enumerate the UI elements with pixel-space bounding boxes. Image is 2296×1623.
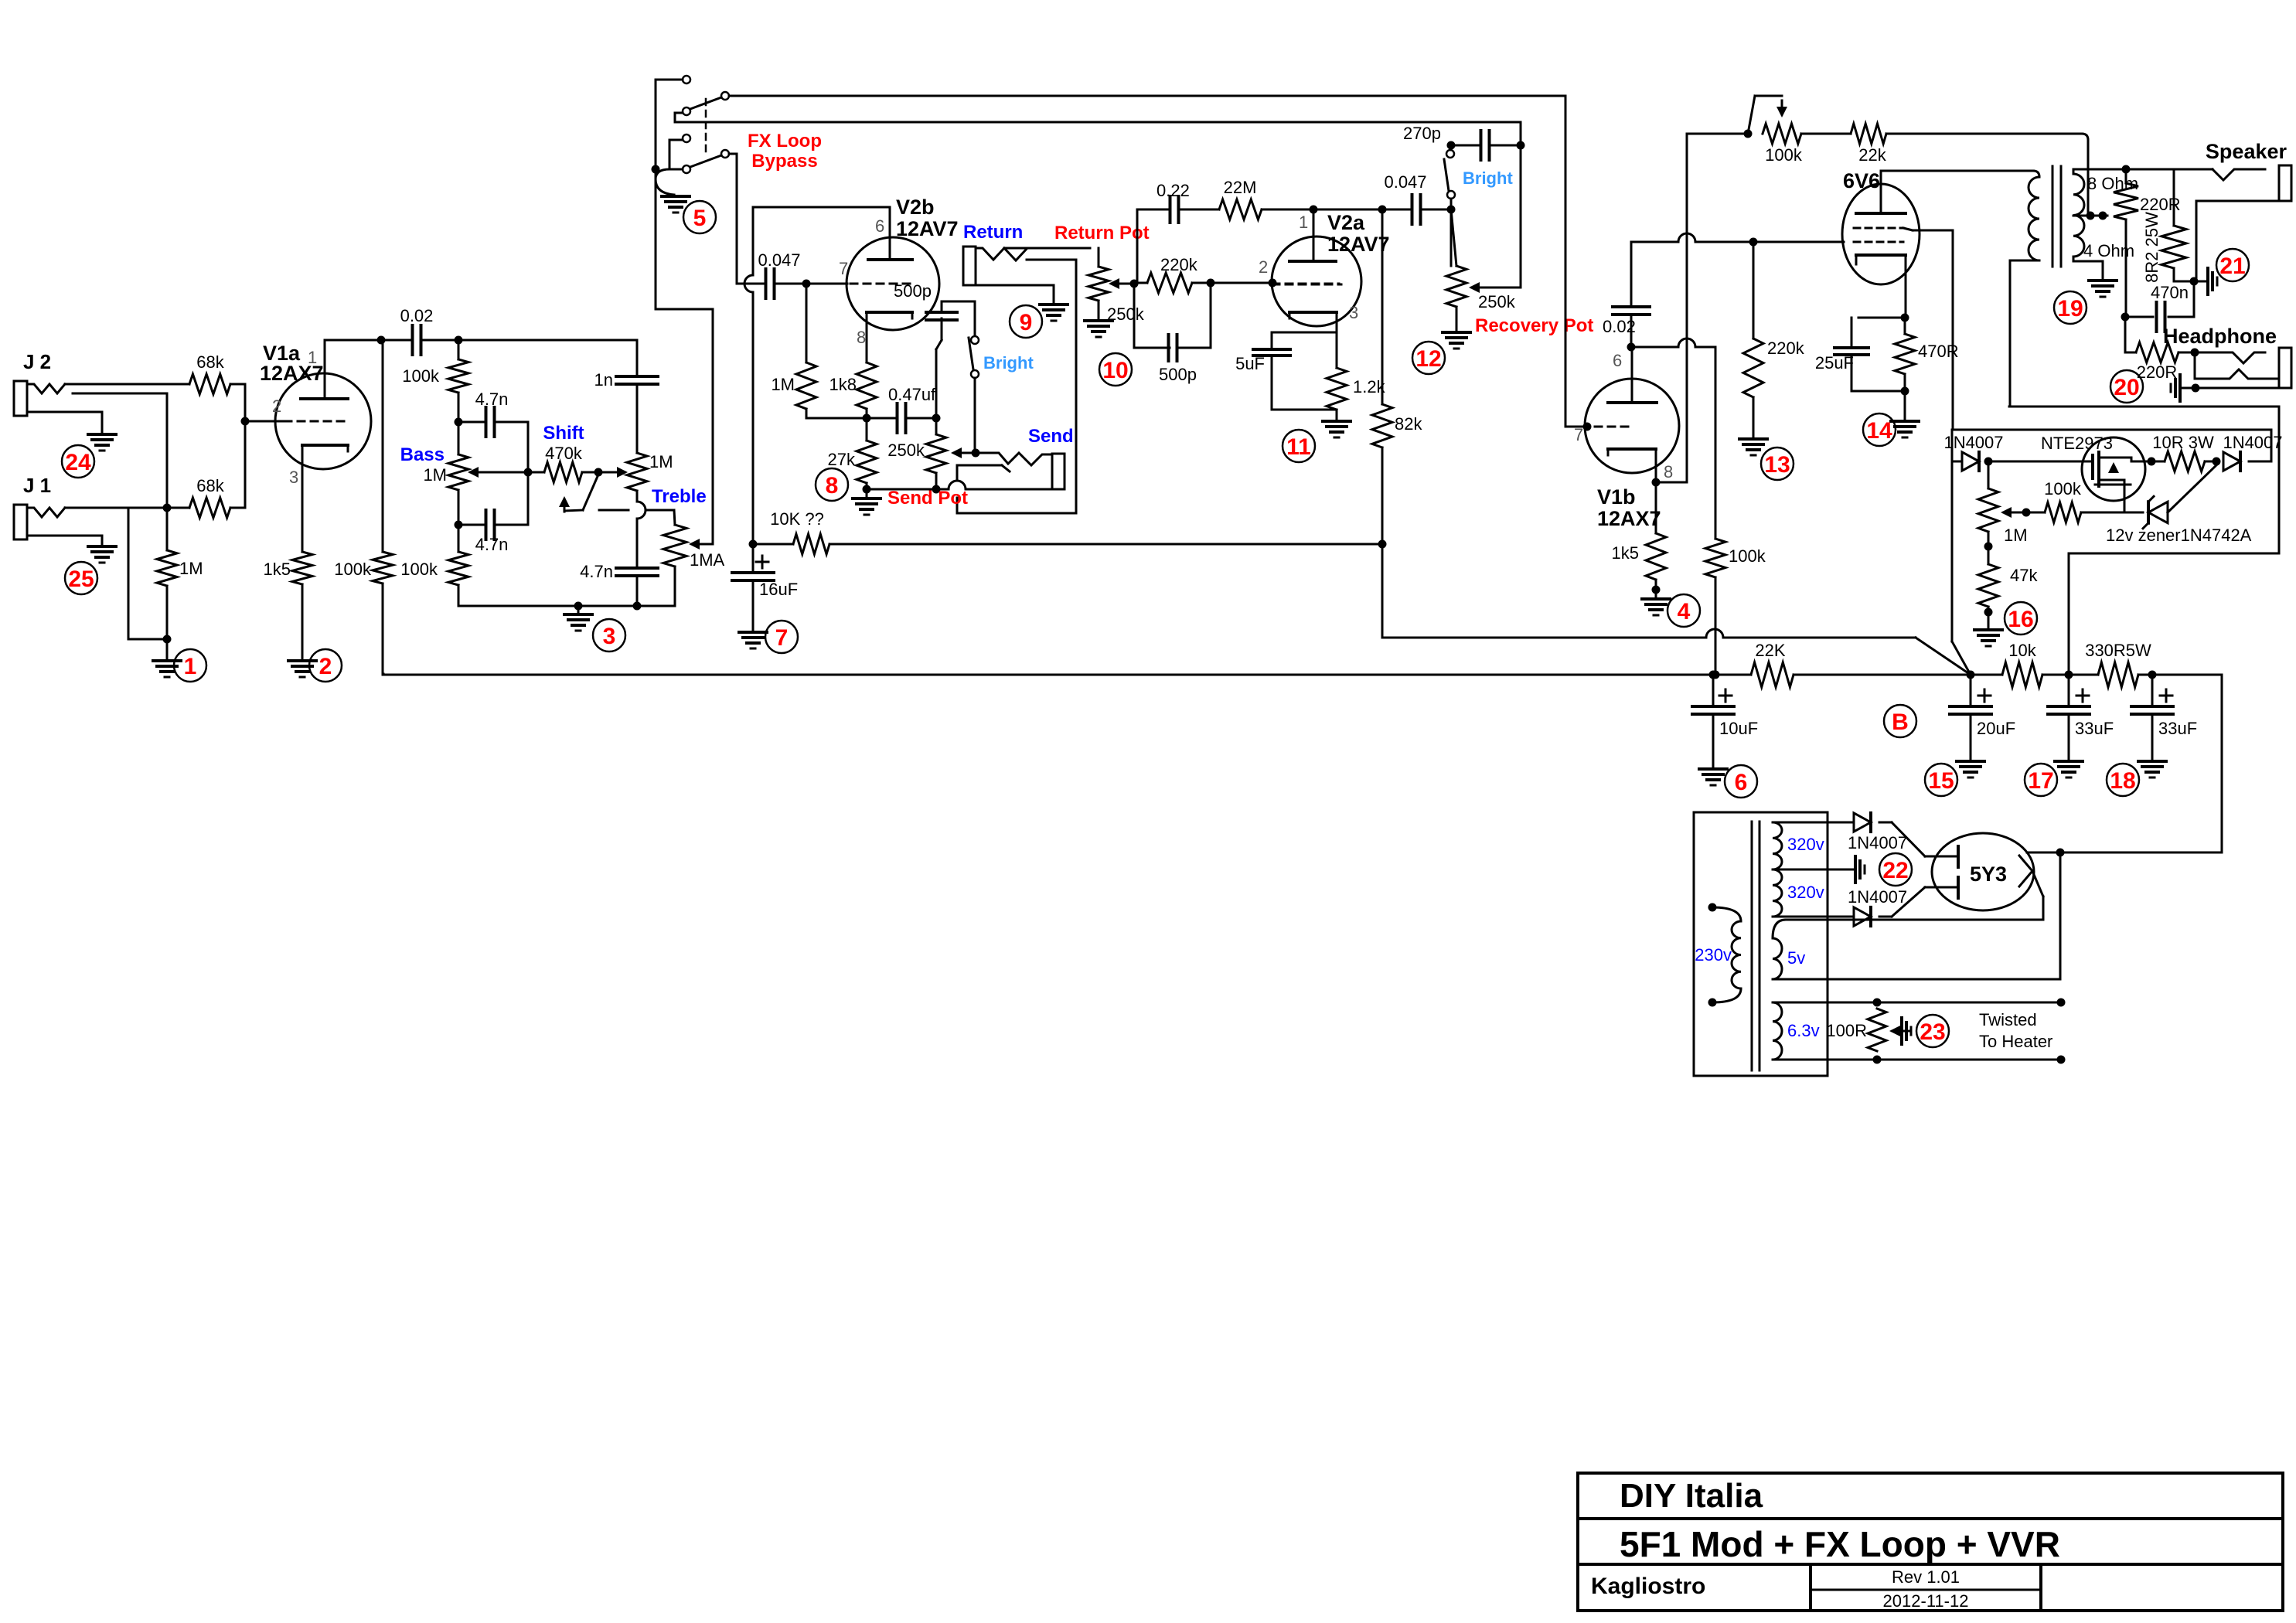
svg-text:7: 7 — [775, 625, 789, 651]
svg-text:Return Pot: Return Pot — [1054, 223, 1150, 243]
svg-text:470R: 470R — [1918, 342, 1959, 361]
svg-text:0.047: 0.047 — [758, 250, 800, 270]
svg-text:16: 16 — [2008, 607, 2033, 632]
svg-text:12: 12 — [1415, 346, 1441, 372]
svg-text:68k: 68k — [196, 352, 224, 372]
svg-text:V1b: V1b — [1597, 485, 1636, 509]
svg-text:10k: 10k — [2008, 641, 2036, 660]
svg-text:2: 2 — [272, 396, 281, 416]
svg-text:1M: 1M — [179, 559, 203, 578]
svg-text:23: 23 — [1920, 1019, 1945, 1045]
svg-text:320v: 320v — [1787, 835, 1824, 854]
svg-text:21: 21 — [2219, 253, 2245, 279]
svg-text:330R5W: 330R5W — [2085, 641, 2151, 660]
svg-text:68k: 68k — [196, 476, 224, 495]
svg-text:J 2: J 2 — [23, 350, 51, 373]
svg-text:J 1: J 1 — [23, 474, 51, 497]
svg-text:3: 3 — [289, 468, 298, 487]
svg-text:10uF: 10uF — [1719, 719, 1758, 738]
svg-text:1k5: 1k5 — [1612, 543, 1639, 563]
svg-text:1N4007: 1N4007 — [1848, 833, 1907, 852]
svg-text:470n: 470n — [2151, 283, 2189, 302]
svg-text:0.02: 0.02 — [400, 306, 434, 325]
svg-text:5F1 Mod + FX Loop + VVR: 5F1 Mod + FX Loop + VVR — [1620, 1524, 2060, 1564]
svg-text:100k: 100k — [402, 366, 440, 386]
svg-text:230v: 230v — [1695, 945, 1732, 965]
svg-text:250k: 250k — [887, 441, 925, 460]
svg-text:Twisted: Twisted — [1979, 1010, 2037, 1029]
svg-text:33uF: 33uF — [2158, 719, 2197, 738]
svg-text:2: 2 — [1259, 257, 1268, 277]
svg-text:17: 17 — [2028, 768, 2053, 794]
svg-text:4.7n: 4.7n — [580, 562, 613, 581]
svg-text:25uF: 25uF — [1815, 353, 1854, 373]
svg-text:1N4007: 1N4007 — [1848, 887, 1907, 907]
svg-text:10R 3W: 10R 3W — [2152, 433, 2214, 452]
svg-text:10K ??: 10K ?? — [770, 509, 824, 529]
svg-text:0.47uf: 0.47uf — [888, 385, 936, 404]
svg-text:22M: 22M — [1224, 178, 1257, 197]
svg-text:470k: 470k — [545, 444, 583, 463]
svg-text:15: 15 — [1928, 768, 1954, 794]
svg-text:8: 8 — [857, 328, 866, 347]
svg-text:6: 6 — [1735, 770, 1748, 795]
svg-text:1M: 1M — [423, 465, 447, 485]
svg-text:47k: 47k — [2010, 566, 2038, 585]
svg-text:13: 13 — [1764, 452, 1790, 478]
svg-text:19: 19 — [2057, 296, 2083, 322]
svg-text:12v zener1N4742A: 12v zener1N4742A — [2106, 526, 2252, 545]
svg-text:Return: Return — [963, 222, 1023, 243]
svg-text:8: 8 — [826, 473, 839, 498]
svg-text:B: B — [1892, 709, 1909, 735]
svg-text:Headphone: Headphone — [2163, 325, 2277, 348]
svg-text:1.2k: 1.2k — [1353, 377, 1386, 396]
svg-text:Bass: Bass — [400, 444, 445, 465]
svg-text:33uF: 33uF — [2075, 719, 2114, 738]
svg-text:27k: 27k — [828, 450, 856, 469]
svg-text:1N4007: 1N4007 — [1943, 433, 2003, 452]
svg-text:270p: 270p — [1403, 124, 1441, 143]
svg-text:Bypass: Bypass — [751, 151, 817, 172]
svg-text:7: 7 — [1574, 425, 1583, 444]
svg-text:5v: 5v — [1787, 948, 1805, 968]
svg-text:Treble: Treble — [652, 486, 707, 507]
svg-text:16uF: 16uF — [759, 580, 798, 599]
svg-text:5uF: 5uF — [1235, 354, 1265, 373]
svg-text:9: 9 — [1020, 310, 1033, 335]
svg-text:500p: 500p — [894, 281, 932, 301]
svg-text:6: 6 — [1613, 351, 1622, 370]
svg-text:1M: 1M — [771, 375, 795, 394]
svg-text:25: 25 — [68, 567, 94, 592]
svg-text:100k: 100k — [1765, 145, 1803, 165]
svg-text:18: 18 — [2110, 768, 2135, 794]
svg-text:100k: 100k — [400, 560, 438, 579]
svg-text:22: 22 — [1882, 858, 1908, 883]
svg-text:Send: Send — [1028, 426, 1074, 447]
svg-text:1: 1 — [1299, 213, 1308, 232]
svg-text:14: 14 — [1866, 418, 1892, 444]
svg-text:220k: 220k — [1767, 339, 1805, 358]
svg-text:100k: 100k — [334, 560, 372, 579]
svg-text:6: 6 — [875, 216, 884, 236]
svg-text:100k: 100k — [2044, 479, 2082, 498]
svg-text:22k: 22k — [1858, 145, 1886, 165]
svg-text:6.3v: 6.3v — [1787, 1021, 1820, 1040]
svg-text:Shift: Shift — [543, 423, 584, 444]
svg-text:Rev 1.01: Rev 1.01 — [1892, 1567, 1960, 1587]
svg-text:3: 3 — [603, 624, 616, 649]
svg-text:10: 10 — [1102, 358, 1128, 383]
svg-text:220R: 220R — [2137, 362, 2178, 382]
svg-text:12AV7: 12AV7 — [1327, 233, 1390, 256]
svg-text:250k: 250k — [1478, 292, 1516, 311]
svg-text:1MA: 1MA — [690, 550, 725, 570]
svg-text:20: 20 — [2114, 375, 2139, 400]
svg-text:To Heater: To Heater — [1979, 1032, 2052, 1051]
svg-text:1N4007: 1N4007 — [2223, 433, 2282, 452]
svg-text:12AV7: 12AV7 — [896, 217, 959, 240]
svg-text:82k: 82k — [1395, 414, 1422, 434]
svg-text:7: 7 — [839, 259, 848, 278]
svg-text:5Y3: 5Y3 — [1970, 863, 2007, 886]
svg-text:24: 24 — [65, 450, 91, 475]
svg-text:NTE2973: NTE2973 — [2041, 434, 2113, 453]
svg-text:1M: 1M — [2004, 526, 2028, 545]
svg-text:0.047: 0.047 — [1384, 172, 1426, 192]
svg-text:4.7n: 4.7n — [475, 535, 509, 554]
svg-text:0.22: 0.22 — [1157, 181, 1190, 200]
svg-text:220k: 220k — [1160, 255, 1198, 274]
svg-text:Bright: Bright — [983, 353, 1034, 373]
svg-text:Recovery Pot: Recovery Pot — [1475, 315, 1593, 336]
svg-text:100k: 100k — [1729, 546, 1766, 566]
svg-text:8: 8 — [1664, 462, 1673, 481]
svg-text:DIY Italia: DIY Italia — [1620, 1477, 1763, 1515]
svg-text:500p: 500p — [1159, 365, 1197, 384]
svg-text:320v: 320v — [1787, 883, 1824, 902]
svg-text:6V6: 6V6 — [1843, 169, 1880, 192]
svg-text:1k5: 1k5 — [264, 560, 291, 579]
svg-text:12AX7: 12AX7 — [1597, 507, 1661, 530]
svg-text:V2a: V2a — [1327, 211, 1365, 234]
svg-text:12AX7: 12AX7 — [260, 362, 324, 385]
svg-text:1: 1 — [184, 654, 197, 679]
svg-text:4.7n: 4.7n — [475, 390, 509, 409]
svg-text:2: 2 — [319, 654, 332, 679]
svg-text:FX Loop: FX Loop — [748, 131, 822, 151]
svg-text:22K: 22K — [1755, 641, 1785, 660]
svg-text:1k8: 1k8 — [829, 375, 857, 394]
svg-text:5: 5 — [693, 206, 707, 231]
svg-text:Send Pot: Send Pot — [887, 488, 968, 509]
svg-text:1M: 1M — [649, 452, 673, 471]
svg-text:8R2 25W: 8R2 25W — [2142, 212, 2161, 283]
svg-text:20uF: 20uF — [1977, 719, 2015, 738]
svg-text:100R: 100R — [1826, 1021, 1867, 1040]
svg-text:V2b: V2b — [896, 196, 935, 219]
svg-text:Bright: Bright — [1463, 168, 1513, 188]
svg-text:Kagliostro: Kagliostro — [1591, 1574, 1705, 1599]
svg-text:1n: 1n — [594, 370, 613, 390]
svg-text:11: 11 — [1286, 434, 1311, 460]
svg-text:Speaker: Speaker — [2206, 140, 2287, 163]
svg-text:4: 4 — [1678, 599, 1691, 624]
svg-text:2012-11-12: 2012-11-12 — [1883, 1591, 1969, 1611]
svg-text:3: 3 — [1349, 303, 1358, 322]
